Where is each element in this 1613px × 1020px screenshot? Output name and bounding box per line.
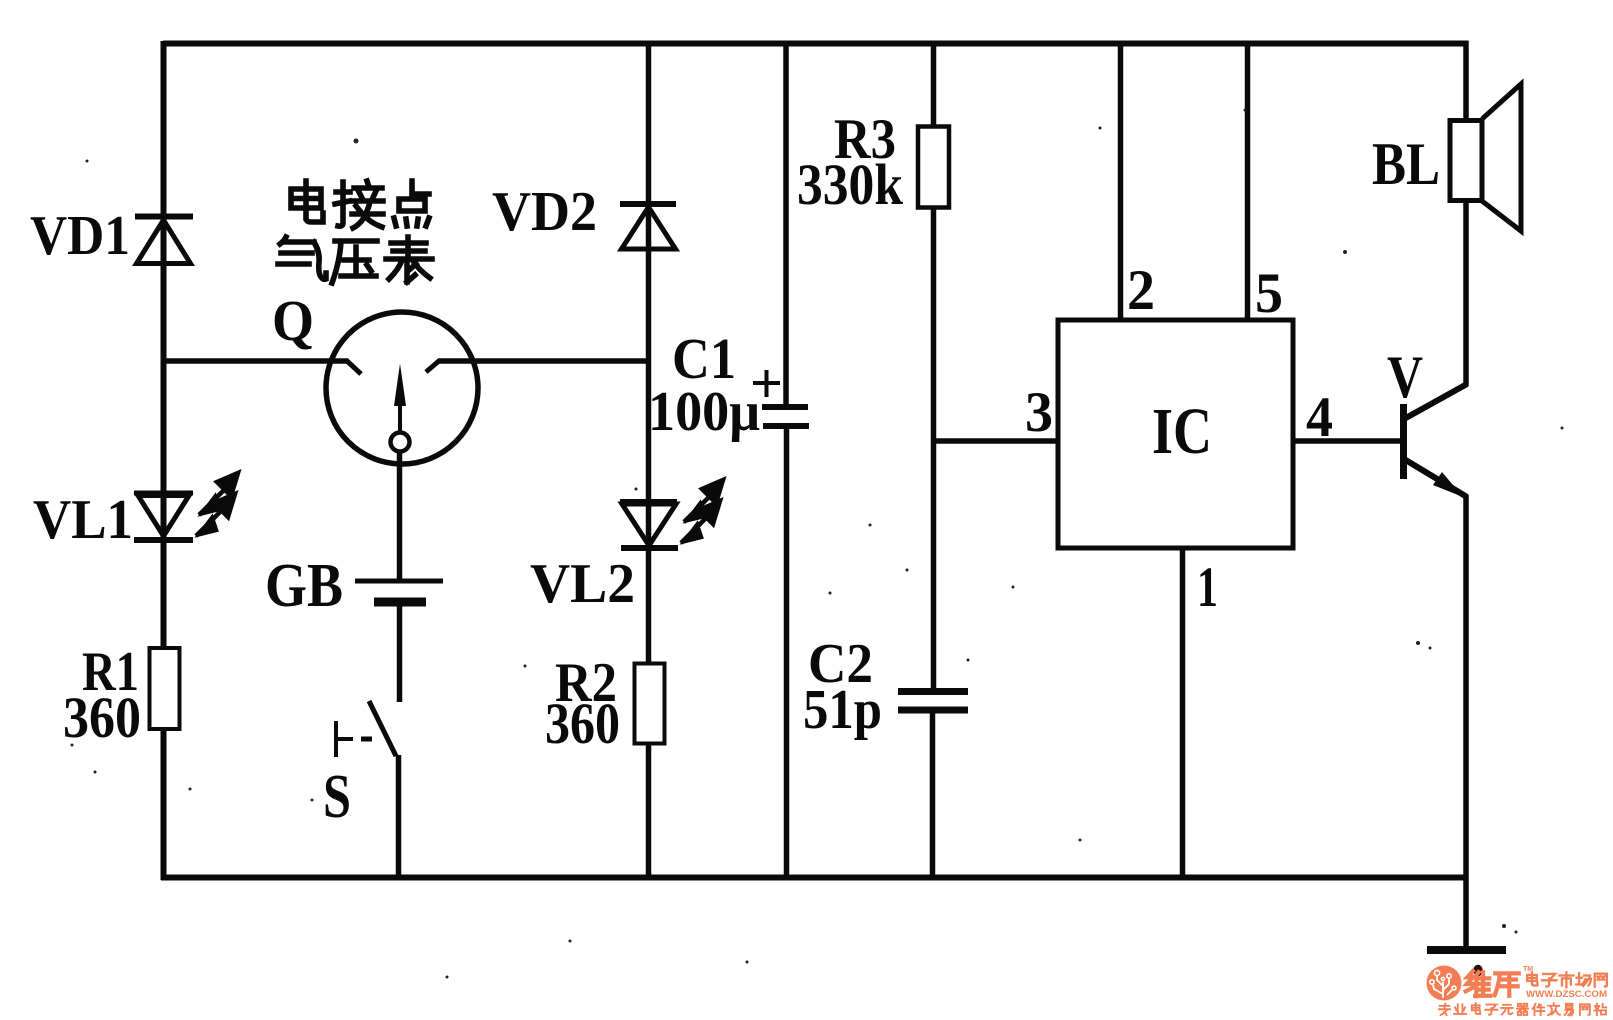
battery GB [355,579,443,584]
VL2 emission arrows [681,480,723,543]
svg-text:360: 360 [545,691,620,756]
wire IC pin5 vertical [1245,41,1251,322]
wire transistor emitter to bottom rail [1463,495,1469,877]
svg-text:BL: BL [1372,131,1440,197]
wire meter bottom to battery [397,451,403,579]
svg-text:51p: 51p [803,679,882,741]
wire bottom rail [161,875,1469,881]
meter left contact tick [346,360,361,374]
svg-text:VD1: VD1 [30,205,130,267]
transistor V (NPN) [1400,404,1407,479]
svg-text:GB: GB [265,552,343,620]
watermark logo circle [1427,966,1462,1001]
LED VL2 [620,499,677,504]
ground [1427,946,1506,954]
diode VD2 [620,201,676,207]
svg-text:VL1: VL1 [33,489,133,551]
wire left rail [161,41,167,880]
wire VD2 branch vertical [646,41,652,877]
meter needle [394,364,406,407]
watermark 维库 [1466,971,1491,996]
wire battery to switch [397,605,403,702]
watermark ink blob [1473,965,1483,977]
wire IC pin3 horizontal [931,438,1060,444]
wire IC pin4 horizontal [1291,438,1402,444]
svg-text:330k: 330k [797,152,904,217]
svg-text:VD2: VD2 [492,181,597,243]
wire bottom rail to ground [1463,877,1469,948]
svg-text:VL2: VL2 [530,553,635,615]
wire IC pin2 vertical [1118,41,1124,322]
watermark 电子市场网 [1527,972,1537,985]
wire speaker to transistor collector [1463,198,1469,386]
diode VD1 [135,214,193,220]
svg-text:5: 5 [1255,262,1283,325]
wire switch to bottom rail [396,755,402,877]
capacitor C2 [898,688,968,695]
svg-text:3: 3 [1025,381,1053,444]
svg-text:WWW.DZSC.COM: WWW.DZSC.COM [1526,989,1607,1000]
wire IC pin1 vertical [1180,546,1186,877]
C1 polarity plus [753,381,780,385]
watermark 专业电子元器件交易网站 [1439,1004,1450,1015]
svg-text:IC: IC [1152,395,1212,468]
speaker BL [1450,121,1482,201]
svg-text:360: 360 [63,685,141,750]
contact barometer Q body [326,312,478,464]
capacitor C1 (electrolytic) [762,404,808,410]
svg-text:Q: Q [272,288,314,353]
wire C1 branch upper [783,41,789,405]
scan speckles (decorative) [354,139,359,144]
LED VL1 [134,491,193,496]
svg-text:V: V [1387,344,1423,410]
label 电接点 [291,181,323,222]
svg-text:S: S [323,763,351,831]
resistor R1 [150,648,180,729]
resistor R2 [635,664,665,744]
meter pivot [391,433,410,452]
resistor R3 [918,127,949,208]
wire C2 branch lower [930,711,936,877]
meter right contact tick [426,360,440,372]
wire right rail upper (top rail to speaker) [1463,41,1469,122]
svg-text:1: 1 [1197,556,1218,619]
label 气压表 [278,237,326,279]
wire C1 branch lower [784,428,790,877]
op IC U1 box [1058,320,1293,548]
switch S actuator [334,721,338,757]
VL1 emission arrows [196,473,238,536]
switch S blade [369,701,396,756]
wire top rail [163,41,1469,47]
wire R3/C2 branch upper [931,41,937,690]
svg-text:4: 4 [1306,386,1333,449]
svg-text:2: 2 [1127,259,1155,322]
wire meter left horizontal [164,358,348,364]
svg-text:100μ: 100μ [648,381,760,443]
wire meter right horizontal [438,358,650,364]
